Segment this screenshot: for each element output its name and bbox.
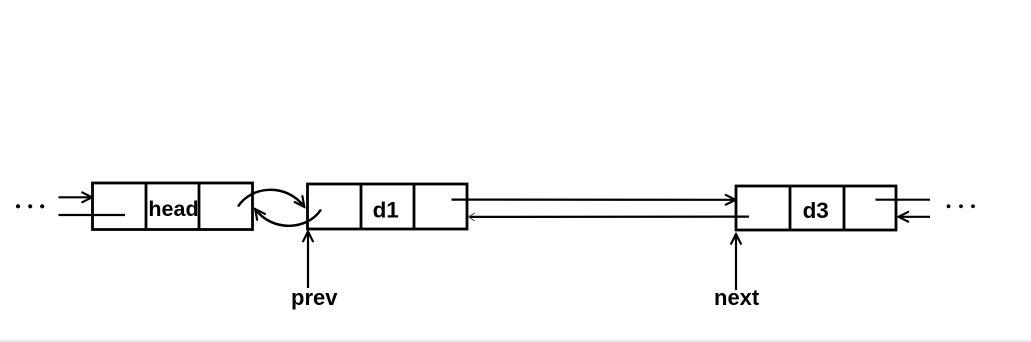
- bottom separator strip: [0, 340, 1031, 342]
- wire d3.prev to d1: [469, 216, 749, 218]
- wire d1.next to d3: [452, 199, 736, 201]
- wire prev pointer from next node into d3: [899, 216, 930, 218]
- svg-text:next: next: [714, 285, 760, 310]
- node head box: [93, 183, 253, 230]
- ellipsis dots right: [947, 204, 975, 208]
- node d1 box: [308, 184, 468, 229]
- vertical arrow prev: [307, 232, 309, 288]
- svg-text:d1: d1: [373, 198, 399, 223]
- wire d3.next going right: [876, 199, 931, 201]
- ellipsis dots left: [16, 204, 44, 208]
- curved arrow head.next to d1 (top arc): [238, 190, 304, 207]
- vertical arrow next: [735, 235, 737, 291]
- wire arrow into head node (next pointer from previous node): [59, 196, 92, 198]
- svg-text:d3: d3: [803, 198, 829, 223]
- wire head prev pointer going left: [59, 214, 126, 216]
- curved arrow d1.prev to head (bottom arc): [256, 210, 322, 226]
- node d3 box: [736, 186, 896, 230]
- svg-text:head: head: [148, 197, 198, 221]
- svg-text:prev: prev: [291, 285, 338, 310]
